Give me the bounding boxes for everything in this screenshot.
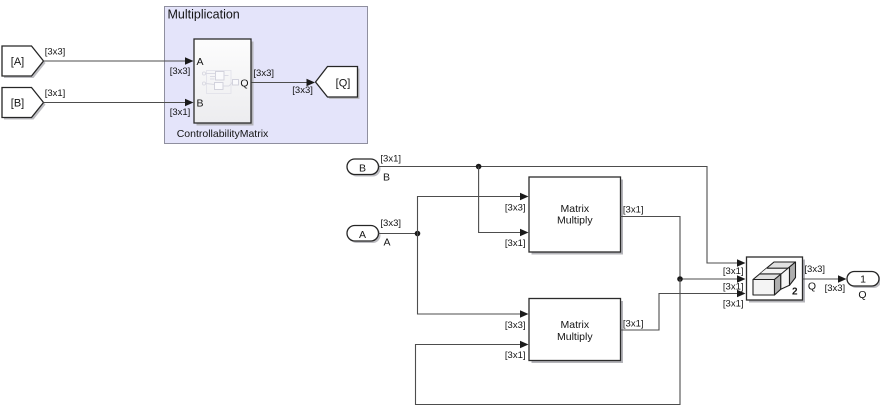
svg-text:Multiplication: Multiplication bbox=[168, 8, 240, 22]
svg-text:[3x3]: [3x3] bbox=[170, 66, 191, 77]
From tag [A] bbox=[2, 46, 46, 78]
svg-text:[3x3]: [3x3] bbox=[45, 47, 66, 58]
subsystem area Multiplication bbox=[165, 7, 368, 144]
svg-text:[3x1]: [3x1] bbox=[723, 281, 744, 292]
signal label [3x1] on wire B (source) bbox=[380, 154, 401, 165]
wire [A] to ControllabilityMatrix port A bbox=[44, 57, 194, 65]
svg-text:A: A bbox=[359, 229, 366, 241]
signal label [3x3] at Matrix Multiply 1 input 1 bbox=[505, 203, 526, 214]
svg-text:B: B bbox=[383, 172, 390, 184]
svg-text:[3x3]: [3x3] bbox=[825, 283, 846, 294]
port label Q (inside ControllabilityMatrix) bbox=[240, 78, 248, 90]
wire A to junction bbox=[379, 233, 418, 235]
svg-text:2: 2 bbox=[792, 287, 798, 298]
junction dot at Matrix Multiply 1 output branch bbox=[677, 276, 683, 282]
block name ControllabilityMatrix bbox=[177, 128, 269, 140]
signal label [3x1] at Concatenate input 1 bbox=[723, 266, 744, 277]
signal label [3x1] on wire B (destination) bbox=[170, 107, 191, 118]
wire ControllabilityMatrix Q to [Q] bbox=[252, 79, 316, 87]
signal label [3x3] at Matrix Multiply 2 input 1 bbox=[505, 320, 526, 331]
junction dot on wire A bbox=[415, 231, 421, 237]
svg-text:[3x1]: [3x1] bbox=[380, 154, 401, 165]
wire Matrix Multiply 1 output to Concatenate input 2 bbox=[621, 217, 746, 283]
svg-text:[B]: [B] bbox=[11, 98, 24, 110]
svg-text:[3x1]: [3x1] bbox=[623, 319, 644, 330]
svg-text:[Q]: [Q] bbox=[336, 78, 351, 90]
wire Concatenate output to outport 1 bbox=[803, 275, 847, 283]
signal label [3x3] on wire A (destination) bbox=[170, 66, 191, 77]
svg-text:B: B bbox=[359, 163, 366, 175]
port name label Q under outport bbox=[858, 289, 866, 301]
svg-text:A: A bbox=[197, 56, 204, 68]
signal label [3x1] at Matrix Multiply 1 output bbox=[623, 204, 644, 215]
Concatenate dimension label 2 bbox=[792, 287, 798, 298]
svg-text:[3x3]: [3x3] bbox=[505, 203, 526, 214]
svg-text:[3x3]: [3x3] bbox=[505, 320, 526, 331]
signal label [3x3] at Concatenate output bbox=[804, 264, 825, 275]
svg-text:Multiply: Multiply bbox=[557, 215, 593, 227]
wire Matrix Multiply 2 output to Concatenate input 3 bbox=[621, 290, 746, 330]
svg-text:[3x1]: [3x1] bbox=[505, 350, 526, 361]
Matrix Concatenate cube icon bbox=[753, 262, 796, 295]
wire B to Matrix Concatenate input 1 bbox=[379, 167, 746, 267]
svg-text:Matrix: Matrix bbox=[561, 319, 590, 331]
svg-text:Q: Q bbox=[240, 78, 248, 90]
svg-text:[A]: [A] bbox=[11, 56, 24, 68]
feedback wire to Matrix Multiply 2 input 2 bbox=[416, 279, 681, 405]
area title Multiplication bbox=[168, 8, 240, 22]
block Matrix Concatenate bbox=[747, 257, 806, 303]
svg-text:[3x1]: [3x1] bbox=[623, 204, 644, 215]
signal label [3x1] at Concatenate input 3 bbox=[723, 298, 744, 309]
outport 1 (oval) bbox=[847, 272, 880, 289]
svg-text:Matrix: Matrix bbox=[561, 203, 590, 215]
svg-text:B: B bbox=[197, 98, 204, 110]
From tag [B] bbox=[2, 88, 46, 120]
junction dot on wire B bbox=[476, 164, 482, 170]
svg-text:[3x3]: [3x3] bbox=[253, 68, 274, 79]
wire branch A to Matrix Multiply 1 input 1 bbox=[418, 193, 529, 234]
port label B (inside ControllabilityMatrix) bbox=[197, 98, 204, 110]
svg-text:[3x3]: [3x3] bbox=[292, 85, 313, 96]
signal label [3x3] at outport input bbox=[825, 283, 846, 294]
port name label B under wire bbox=[383, 172, 390, 184]
signal label [3x1] on wire B (source) bbox=[45, 88, 66, 99]
wire branch B to Matrix Multiply 1 input 2 bbox=[479, 167, 529, 237]
signal label [3x3] on wire A (source) bbox=[380, 218, 401, 229]
svg-text:[3x3]: [3x3] bbox=[804, 264, 825, 275]
block Matrix Multiply 1 bbox=[529, 177, 623, 255]
svg-text:[3x1]: [3x1] bbox=[723, 298, 744, 309]
inport B (oval) bbox=[347, 159, 381, 177]
signal label [3x1] at Matrix Multiply 2 input 2 bbox=[505, 350, 526, 361]
svg-text:[3x1]: [3x1] bbox=[170, 107, 191, 118]
signal label [3x3] on wire Q (destination) bbox=[292, 85, 313, 96]
svg-text:Multiply: Multiply bbox=[557, 331, 593, 343]
signal label [3x3] on wire A (source) bbox=[45, 47, 66, 58]
wire [B] to ControllabilityMatrix port B bbox=[44, 99, 194, 107]
svg-text:[3x1]: [3x1] bbox=[723, 266, 744, 277]
ControllabilityMatrix inner preview watermark bbox=[202, 71, 238, 94]
svg-text:A: A bbox=[384, 237, 391, 249]
block Matrix Multiply 2 bbox=[529, 299, 623, 364]
signal label [3x1] at Matrix Multiply 1 input 2 bbox=[505, 238, 526, 249]
subsystem block ControllabilityMatrix bbox=[194, 39, 254, 126]
signal label [3x1] at Matrix Multiply 2 output bbox=[623, 319, 644, 330]
svg-text:Q: Q bbox=[808, 281, 816, 293]
Goto tag [Q] bbox=[316, 67, 360, 100]
port name label Q under Concatenate output bbox=[808, 281, 816, 293]
inport A (oval) bbox=[347, 226, 381, 244]
port label A (inside ControllabilityMatrix) bbox=[197, 56, 204, 68]
signal label [3x3] on wire Q (source) bbox=[253, 68, 274, 79]
signal label [3x1] at Concatenate input 2 bbox=[723, 281, 744, 292]
svg-text:[3x3]: [3x3] bbox=[380, 218, 401, 229]
svg-text:ControllabilityMatrix: ControllabilityMatrix bbox=[177, 128, 269, 140]
svg-text:1: 1 bbox=[860, 274, 866, 286]
svg-text:[3x1]: [3x1] bbox=[505, 238, 526, 249]
wire branch A to Matrix Multiply 2 input 1 bbox=[418, 234, 529, 318]
port name label A under wire bbox=[384, 237, 391, 249]
svg-text:Q: Q bbox=[858, 289, 866, 301]
svg-text:[3x1]: [3x1] bbox=[45, 88, 66, 99]
